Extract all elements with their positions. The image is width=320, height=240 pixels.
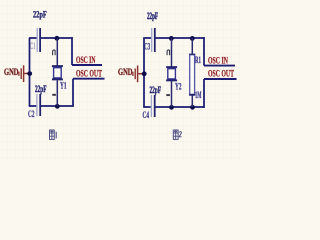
svg-text:OSC OUT: OSC OUT [76,69,102,79]
svg-text:22pF: 22pF [147,12,158,22]
node: junction dot top right (resistor) [190,36,195,41]
svg-text:GND: GND [118,67,133,77]
svg-text:22pF: 22pF [150,86,162,96]
node: GND junction dot on rail (c2) [142,71,147,76]
wire: OSC OUT vertical down to bottom wire [72,79,74,107]
svg-text:22pF: 22pF [35,85,47,95]
svg-text:Y1: Y1 [60,81,67,91]
svg-text:C3: C3 [144,42,150,52]
svg-text:GND: GND [4,67,19,77]
svg-text:OSC IN: OSC IN [208,57,228,67]
capacitor C2 [37,94,40,116]
wire: top wire segment left of C3 [143,37,151,39]
node: GND junction dot on rail [27,71,32,76]
svg-text:OSC OUT: OSC OUT [208,70,234,80]
svg-text:OSC IN: OSC IN [76,56,96,66]
wire: OSC OUT net line [73,78,105,80]
power port GND (circuit 1) [4,65,30,82]
pin mark dash (Y2 bottom pin) [166,94,170,96]
caption 图2 [173,130,181,139]
wire: OSC IN net line [72,64,102,66]
pin mark n (Y2 top pin) [167,50,170,55]
wire: left rail C1 [29,38,31,106]
svg-text:22pF: 22pF [33,10,47,20]
svg-text:C4: C4 [143,110,150,120]
svg-text:C2: C2 [28,109,35,119]
wire: top wire C3 to corner [156,37,205,39]
power port GND (circuit 2) [118,66,144,83]
wire: OSC IN net line (c2) [204,65,235,67]
capacitor C4 [151,95,154,117]
node: junction dot bottom right (resistor) [190,105,195,110]
wire: bottom wire left segment [29,105,37,107]
svg-text:C1: C1 [30,41,36,51]
node: junction dot top left (crystal) [169,36,174,41]
svg-text:R1: R1 [195,55,201,65]
crystal Y2 lead top [171,38,173,67]
wire: bottom wire right segment [41,105,74,107]
wire: corner down to OSC IN line (c2) [203,37,205,65]
caption 图1 [50,130,57,139]
resistor R1 lead bottom [191,95,193,107]
svg-text:Y2: Y2 [175,82,182,92]
resistor R1 [190,54,195,95]
resistor R1 lead top [191,38,193,55]
node: junction dot top (OSC IN net) [55,36,60,41]
node: junction dot bottom left (crystal) [169,105,174,110]
crystal Y2 [166,67,177,80]
crystal Y1 lead bottom [56,80,58,106]
wire: top wire segment left of C1 [29,37,37,39]
capacitor C1 [37,28,40,52]
wire: OSC OUT vertical to bottom wire (c2) [203,79,205,108]
pin mark dash (Y1 bottom pin) [52,94,56,96]
pin mark n (Y1 top pin) [53,50,56,55]
wire: bottom wire right segment (c2) [155,106,205,108]
wire: corner down to OSC IN line [71,37,73,65]
wire: OSC OUT net line (c2) [204,78,237,80]
crystal Y2 lead bottom [171,81,173,107]
crystal Y1 lead top [56,38,58,66]
crystal Y1 [52,66,63,79]
wire: bottom wire left segment (c2) [143,106,151,108]
wire: left rail C2 [143,38,145,107]
capacitor C3 [152,28,155,52]
wire: top wire segment C1 to corner [41,37,73,39]
svg-text:1M: 1M [195,90,202,100]
node: junction dot bottom (OSC OUT net) [55,104,60,109]
